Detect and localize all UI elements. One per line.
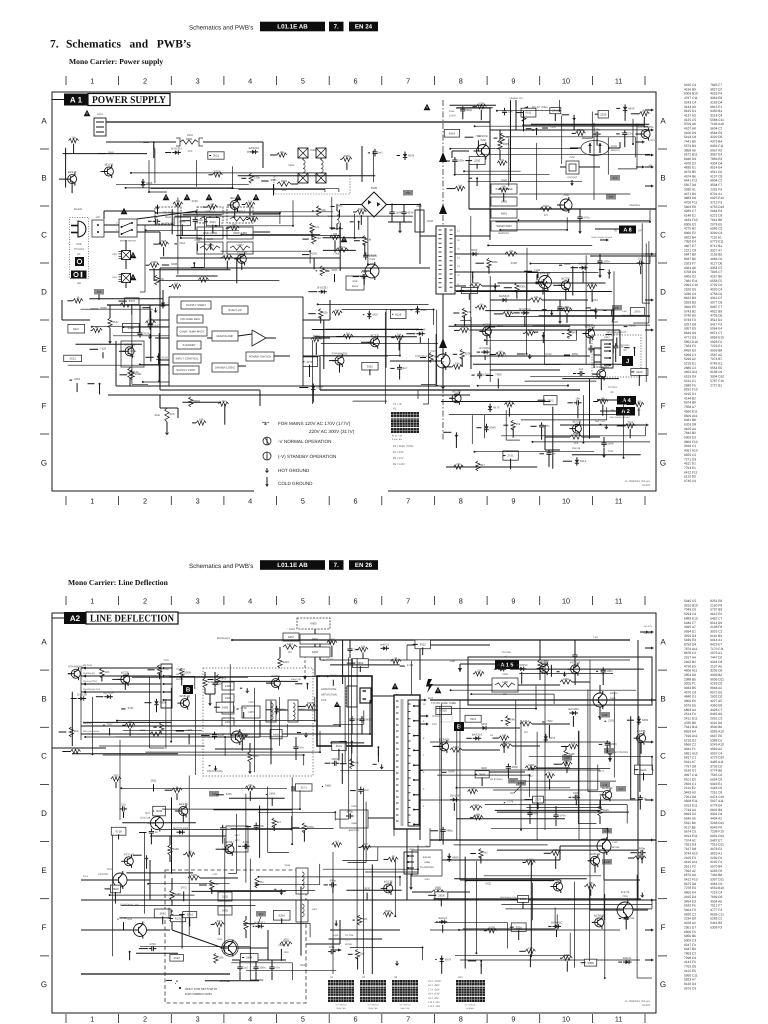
wire	[566, 961, 568, 972]
flag L36	[602, 828, 612, 834]
wire	[131, 314, 133, 384]
svg-text:BC857B: BC857B	[180, 695, 191, 698]
svg-text:6778 E4: 6778 E4	[710, 804, 722, 808]
grid column number 4	[248, 78, 252, 86]
svg-text:2514 F4: 2514 F4	[684, 713, 696, 717]
wire	[353, 919, 355, 921]
label	[564, 263, 570, 266]
svg-text:8940 D9: 8940 D9	[684, 157, 696, 161]
resistor 3452	[500, 744, 512, 748]
svg-text:9636: 9636	[186, 138, 192, 141]
grid tick	[40, 783, 49, 785]
svg-text:BGP20CL: BGP20CL	[498, 232, 509, 235]
wire	[536, 274, 538, 280]
wire	[481, 777, 483, 786]
title box A2	[52, 617, 64, 619]
svg-text:A 8: A 8	[623, 227, 632, 233]
wire	[573, 118, 575, 131]
label	[278, 944, 284, 947]
svg-text:1N4148: 1N4148	[497, 664, 507, 667]
svg-text:1M: 1M	[222, 400, 226, 403]
svg-text:360R: 360R	[564, 760, 571, 763]
wire	[489, 326, 496, 328]
svg-text:6339: 6339	[642, 719, 648, 722]
ground	[608, 270, 610, 274]
svg-text:8247 F9: 8247 F9	[684, 943, 696, 947]
svg-text:4981 C9: 4981 C9	[710, 882, 722, 886]
svg-text:7: 7	[406, 598, 410, 606]
capacitor 2459	[349, 646, 351, 649]
grid row letter B	[41, 174, 47, 183]
svg-text:6946 F7: 6946 F7	[684, 621, 696, 625]
wire	[228, 204, 230, 206]
wire	[460, 663, 495, 665]
label	[100, 347, 106, 350]
wire	[557, 309, 562, 311]
svg-text:6119: 6119	[470, 718, 476, 721]
label	[186, 729, 192, 732]
svg-text:1407: 1407	[248, 701, 254, 704]
svg-text:G: G	[41, 459, 47, 468]
label	[629, 324, 635, 327]
svg-text:5823 A7: 5823 A7	[684, 978, 696, 982]
svg-text:15: 15	[457, 248, 460, 251]
svg-text:3910 B10: 3910 B10	[684, 604, 698, 608]
svg-text:ONLY FOR SETS WITH: ONLY FOR SETS WITH	[185, 988, 217, 991]
svg-text:3459: 3459	[283, 661, 289, 664]
wire	[486, 334, 488, 345]
svg-text:L11 = -13V: L11 = -13V	[428, 1005, 440, 1008]
svg-text:TL / HN DC: TL / HN DC	[367, 1004, 378, 1006]
svg-text:4k7: 4k7	[277, 821, 282, 824]
svg-text:3712 F3: 3712 F3	[710, 201, 722, 205]
svg-text:360R: 360R	[344, 155, 351, 158]
wire	[519, 193, 630, 195]
dashed EW box	[165, 870, 306, 1003]
box 3403	[218, 906, 232, 915]
svg-text:3R3: 3R3	[221, 677, 226, 680]
wire	[503, 741, 505, 753]
wire	[573, 373, 576, 375]
resistor R3154	[568, 744, 578, 748]
svg-text:BZX284: BZX284	[103, 691, 113, 694]
wire	[507, 771, 509, 779]
svg-text:6119 D5: 6119 D5	[684, 475, 696, 479]
svg-text:3354 D7: 3354 D7	[710, 266, 722, 270]
coil 4611	[337, 211, 339, 215]
resistor R3150	[71, 749, 81, 753]
wire	[463, 928, 555, 930]
switch box	[119, 219, 137, 237]
wire	[83, 721, 172, 723]
enclosure box right	[468, 657, 652, 705]
wire	[320, 317, 322, 324]
wire	[321, 342, 438, 344]
component box 1883	[273, 910, 290, 920]
svg-text:2411 D11: 2411 D11	[684, 717, 698, 721]
component box 1680	[475, 771, 489, 778]
svg-text:3500 B6: 3500 B6	[710, 726, 722, 730]
svg-text:3331 D4: 3331 D4	[710, 813, 722, 817]
wire	[188, 734, 190, 744]
flag P4	[610, 175, 620, 181]
wire	[638, 408, 640, 416]
svg-text:14: 14	[457, 256, 460, 259]
svg-text:P3 = 95(A) (72VA): P3 = 95(A) (72VA)	[393, 445, 413, 448]
svg-text:9746 B9: 9746 B9	[684, 314, 696, 318]
wire	[475, 307, 476, 309]
wire	[333, 723, 364, 725]
wire	[396, 694, 398, 826]
wire	[450, 397, 451, 399]
svg-text:BAV21: BAV21	[623, 957, 632, 960]
svg-text:B: B	[457, 724, 461, 731]
svg-text:1R5: 1R5	[232, 224, 237, 227]
resistor R3429	[394, 335, 404, 339]
wire	[377, 750, 379, 762]
wire	[537, 803, 539, 809]
wire	[224, 404, 226, 425]
wire bus	[259, 390, 261, 412]
wire	[564, 354, 570, 356]
svg-text:6804 C2: 6804 C2	[710, 179, 722, 183]
svg-text:5411 C1: 5411 C1	[684, 379, 696, 383]
svg-text:9278 D10: 9278 D10	[710, 756, 724, 760]
wire	[247, 151, 248, 153]
capacitor C2723	[331, 762, 334, 764]
svg-text:47k: 47k	[315, 226, 320, 229]
svg-text:C: C	[660, 231, 666, 240]
svg-text:7441 B5: 7441 B5	[684, 140, 696, 144]
output arrow	[645, 769, 651, 771]
legend standby icon	[263, 452, 271, 460]
wire bus	[459, 700, 461, 880]
wire	[325, 328, 419, 330]
wire	[205, 980, 259, 982]
label P6	[393, 463, 405, 466]
IC sub box	[177, 327, 207, 336]
wire	[461, 357, 463, 367]
output arrow	[645, 253, 651, 255]
svg-text:5293 C4: 5293 C4	[684, 612, 696, 616]
label	[194, 239, 200, 242]
flag 9422	[516, 780, 526, 786]
EW note background	[176, 982, 262, 1000]
svg-text:3883 D6: 3883 D6	[684, 197, 696, 201]
svg-text:2221 C8: 2221 C8	[684, 249, 696, 253]
resistor R3579	[567, 329, 571, 339]
wire	[146, 858, 148, 869]
resistor 3459	[278, 658, 282, 668]
legend text cold	[278, 481, 313, 486]
svg-text:2621: 2621	[70, 357, 76, 360]
wire	[549, 779, 551, 790]
resistor 3226	[203, 678, 207, 688]
output arrow	[645, 741, 651, 743]
svg-text:3370: 3370	[129, 300, 135, 303]
wire bus	[414, 799, 640, 801]
wire	[165, 789, 172, 791]
svg-text:5945 C5: 5945 C5	[684, 599, 696, 603]
wire	[229, 797, 285, 799]
svg-text:6/5(4G): 6/5(4G)	[423, 856, 431, 859]
svg-text:680p: 680p	[639, 847, 645, 850]
wire	[203, 216, 205, 267]
box OMP-2400	[227, 227, 253, 239]
svg-text:MAINS SWITCH: MAINS SWITCH	[120, 240, 136, 242]
wire	[216, 794, 224, 796]
wire	[122, 822, 196, 824]
output arrow	[645, 839, 651, 841]
svg-text:390R: 390R	[187, 134, 193, 137]
wire	[216, 225, 293, 227]
svg-text:G: G	[660, 459, 666, 468]
wire	[131, 172, 321, 174]
wire	[189, 918, 191, 927]
svg-text:8974 B8: 8974 B8	[684, 401, 696, 405]
capacitor 2526	[261, 320, 263, 323]
svg-text:470R: 470R	[224, 253, 231, 256]
svg-text:G: G	[660, 981, 666, 990]
wire vbat	[515, 100, 517, 130]
wire	[348, 953, 353, 955]
svg-text:9199 D1: 9199 D1	[684, 769, 696, 773]
component box 1441	[461, 288, 477, 294]
wire	[113, 335, 221, 337]
wire	[268, 314, 270, 343]
svg-text:9127 D6: 9127 D6	[710, 262, 722, 266]
wire	[336, 336, 343, 338]
component box 1366	[503, 451, 518, 460]
grid tick	[539, 596, 541, 605]
fuse 1560	[92, 220, 104, 237]
wire	[297, 732, 301, 734]
svg-text:EN 26: EN 26	[355, 562, 373, 569]
capacitor 2569	[603, 440, 605, 443]
node	[536, 128, 538, 130]
wire	[556, 929, 558, 937]
wire	[522, 902, 524, 909]
resistor R3374	[149, 263, 159, 267]
svg-text:1n: 1n	[644, 797, 647, 800]
svg-text:2702 D1: 2702 D1	[710, 284, 722, 288]
svg-text:8423 E7: 8423 E7	[710, 643, 722, 647]
svg-text:11: 11	[615, 598, 623, 606]
oscillogram block	[391, 412, 419, 433]
wire	[266, 682, 271, 684]
svg-text:*Dn BGP200L: *Dn BGP200L	[420, 866, 435, 869]
warning triangle	[424, 104, 431, 111]
capacitor C2917	[120, 808, 123, 810]
svg-text:3964: 3964	[543, 205, 549, 208]
diode D6660	[177, 831, 180, 833]
flag P2	[94, 289, 104, 295]
diode D6617	[172, 152, 175, 154]
svg-text:3: 3	[196, 1016, 200, 1024]
svg-text:2408: 2408	[246, 956, 252, 959]
label	[127, 707, 133, 710]
mains switch icon on	[71, 271, 87, 279]
ground	[305, 733, 307, 737]
wire	[329, 938, 383, 940]
wire	[136, 952, 178, 954]
wire	[560, 166, 566, 168]
wire	[456, 725, 458, 840]
svg-text:3903: 3903	[503, 143, 509, 146]
svg-text:5774 B6: 5774 B6	[710, 769, 722, 773]
svg-text:100n: 100n	[610, 743, 616, 746]
component box 1440	[301, 357, 317, 367]
wire	[236, 814, 238, 874]
resistor 3454	[520, 722, 532, 726]
svg-text:BGP200L: BGP200L	[349, 829, 360, 832]
svg-text:4: 4	[248, 498, 252, 506]
diode 6527	[162, 300, 164, 303]
ground	[335, 920, 337, 924]
svg-text:7298 C9: 7298 C9	[684, 956, 696, 960]
component box 1891	[435, 892, 448, 899]
svg-text:F: F	[661, 402, 666, 411]
wire	[358, 846, 361, 848]
svg-text:10k: 10k	[199, 418, 204, 421]
svg-text:8292 F10: 8292 F10	[684, 388, 698, 392]
svg-text:8649 D9: 8649 D9	[684, 332, 696, 336]
wire	[234, 208, 236, 218]
svg-text:3430: 3430	[173, 848, 179, 851]
ground	[396, 961, 398, 965]
legend text hot	[278, 468, 309, 473]
svg-text:4974 B6: 4974 B6	[684, 175, 696, 179]
wire	[81, 929, 133, 931]
wire	[624, 326, 628, 328]
wire	[584, 885, 585, 887]
svg-text:BC857B: BC857B	[590, 853, 601, 856]
wire	[526, 248, 528, 299]
svg-text:8701 A1: 8701 A1	[710, 192, 722, 196]
resistor 3527	[108, 318, 112, 328]
svg-text:3467: 3467	[287, 643, 293, 646]
svg-text:4196 B9: 4196 B9	[684, 88, 696, 92]
svg-text:2: 2	[143, 498, 147, 506]
svg-text:15k: 15k	[71, 136, 76, 139]
wire bus	[470, 355, 590, 357]
wire	[451, 289, 549, 291]
resistor R3234	[355, 949, 359, 959]
svg-text:6916: 6916	[449, 132, 455, 135]
wire	[638, 375, 640, 386]
svg-text:7: 7	[406, 1016, 410, 1024]
svg-text:5604 C2: 5604 C2	[710, 127, 722, 131]
svg-text:9: 9	[423, 720, 424, 723]
svg-text:8037 B6: 8037 B6	[684, 258, 696, 262]
wire	[76, 343, 142, 345]
svg-text:7602: 7602	[546, 720, 552, 723]
wire	[455, 954, 570, 956]
wire	[81, 879, 113, 881]
svg-text:8878 C2: 8878 C2	[684, 652, 696, 656]
svg-text:Pwm: Pwm	[83, 875, 88, 878]
svg-text:5579 B3: 5579 B3	[684, 144, 696, 148]
grid tick	[591, 76, 593, 85]
wire rail	[106, 121, 490, 123]
wire	[568, 402, 573, 404]
wire	[72, 753, 178, 755]
wire	[538, 399, 546, 401]
subsection heading 2	[68, 579, 168, 587]
diode D6351	[156, 699, 158, 702]
wire	[92, 326, 247, 328]
wire	[632, 119, 634, 144]
resistor R3860	[317, 206, 321, 216]
svg-text:7763 E1: 7763 E1	[684, 466, 696, 470]
svg-text:9034 B5: 9034 B5	[684, 686, 696, 690]
resistor R3747	[237, 735, 247, 739]
mains switch icon off	[75, 257, 84, 266]
wire	[183, 891, 185, 901]
wire	[518, 219, 650, 221]
wire	[523, 332, 525, 334]
wire	[137, 211, 197, 219]
resistor R3786	[249, 173, 253, 183]
svg-text:7461: 7461	[622, 895, 628, 898]
svg-text:56k: 56k	[510, 718, 515, 721]
wire	[598, 399, 617, 401]
capacitor C2219	[442, 827, 444, 830]
wire	[520, 720, 522, 830]
svg-text:6216: 6216	[162, 356, 168, 359]
svg-text:3330 A1: 3330 A1	[684, 188, 696, 192]
wire	[158, 333, 160, 381]
diode D6662	[441, 956, 443, 959]
wire	[162, 264, 169, 266]
wire	[203, 206, 207, 208]
resistor 3908	[522, 112, 526, 122]
wire	[468, 160, 470, 209]
svg-text:9406 D2: 9406 D2	[684, 275, 696, 279]
flag L31	[600, 712, 610, 718]
wire batt	[560, 424, 640, 426]
svg-text:9265 F8: 9265 F8	[710, 869, 722, 873]
component box 1684	[444, 129, 459, 137]
wire	[443, 431, 451, 433]
wire	[344, 676, 346, 762]
wire	[214, 680, 297, 682]
wire	[516, 129, 585, 131]
resistor 3966	[505, 252, 517, 256]
wire bus	[108, 394, 470, 396]
wire	[612, 308, 614, 353]
svg-text:2524: 2524	[143, 332, 149, 335]
svg-text:3454: 3454	[523, 720, 529, 723]
output arrow	[645, 647, 651, 649]
wire bus	[380, 899, 656, 901]
svg-text:3511 D4: 3511 D4	[710, 318, 722, 322]
svg-text:6779: 6779	[280, 709, 286, 712]
wire	[165, 699, 167, 749]
diode D6926	[518, 668, 521, 670]
grid tick	[40, 433, 49, 435]
part list column	[684, 599, 724, 990]
svg-text:20ns / div: 20ns / div	[336, 1007, 345, 1009]
svg-text:D4: D4	[490, 734, 493, 737]
svg-text:5787 F10: 5787 F10	[710, 379, 724, 383]
resistor R3507	[515, 283, 519, 293]
label	[74, 378, 80, 381]
label	[270, 179, 276, 182]
wire	[333, 940, 338, 950]
capacitor C2146	[360, 787, 362, 790]
svg-text:1N4148: 1N4148	[572, 447, 581, 450]
